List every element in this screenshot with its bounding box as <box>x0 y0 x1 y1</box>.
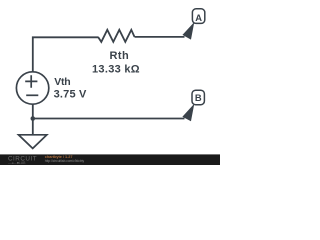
wire resistor to terminal A <box>135 36 185 38</box>
watermark bar <box>0 154 220 165</box>
svg-text:3.75 V: 3.75 V <box>54 89 87 101</box>
ground <box>19 135 47 149</box>
svg-text:13.33 kΩ: 13.33 kΩ <box>92 64 140 76</box>
resistor Rth <box>98 30 135 42</box>
terminal A box <box>192 9 204 24</box>
terminal B tail <box>183 105 193 120</box>
wire source bottom to ground <box>32 104 34 135</box>
junction node <box>31 116 36 121</box>
voltage source V1 circle <box>16 72 48 104</box>
wire bottom horizontal to terminal B <box>33 118 185 120</box>
svg-text:Rth: Rth <box>110 50 130 62</box>
wire left vertical + top horizontal <box>33 37 98 72</box>
plus sign <box>25 75 37 88</box>
terminal A tail <box>183 24 193 39</box>
svg-text:A: A <box>195 12 202 23</box>
svg-text:Vth: Vth <box>54 76 70 88</box>
svg-text:http://circuitlab.com/c9dcbty: http://circuitlab.com/c9dcbty <box>45 159 85 163</box>
terminal B box <box>192 90 204 105</box>
svg-text:B: B <box>195 92 202 103</box>
svg-text:—◂—■LAB: —◂—■LAB <box>8 161 26 165</box>
minus sign <box>26 94 38 96</box>
